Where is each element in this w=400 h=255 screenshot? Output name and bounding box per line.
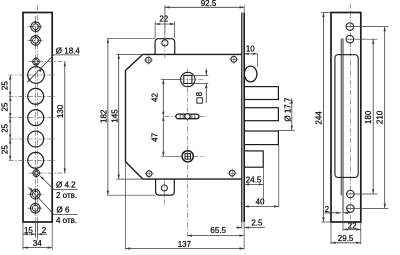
svg-text:2 отв.: 2 отв. <box>56 191 77 200</box>
svg-text:42: 42 <box>150 93 159 102</box>
svg-text:22: 22 <box>159 15 168 24</box>
svg-text:40: 40 <box>256 198 265 207</box>
svg-text:24.5: 24.5 <box>246 176 262 185</box>
svg-text:8: 8 <box>195 91 204 96</box>
svg-text:Ø 17.7: Ø 17.7 <box>283 97 292 122</box>
svg-text:22: 22 <box>348 222 357 231</box>
svg-text:25: 25 <box>1 145 10 154</box>
svg-text:10: 10 <box>246 44 255 53</box>
svg-text:34: 34 <box>33 239 42 248</box>
svg-text:137: 137 <box>178 240 192 249</box>
svg-text:Ø 4.2: Ø 4.2 <box>56 181 76 190</box>
svg-text:25: 25 <box>1 102 10 111</box>
svg-text:2.5: 2.5 <box>251 219 263 228</box>
svg-text:Ø 6: Ø 6 <box>57 206 70 215</box>
svg-text:130: 130 <box>56 104 65 118</box>
svg-text:145: 145 <box>111 109 120 123</box>
svg-text:210: 210 <box>376 110 385 124</box>
svg-text:92.5: 92.5 <box>201 0 217 8</box>
svg-text:180: 180 <box>364 110 373 124</box>
svg-text:2: 2 <box>42 226 47 235</box>
svg-text:2: 2 <box>325 205 330 214</box>
svg-text:65.5: 65.5 <box>210 226 226 235</box>
svg-text:25: 25 <box>1 81 10 90</box>
svg-text:244: 244 <box>314 111 323 125</box>
svg-text:15: 15 <box>24 226 33 235</box>
svg-text:25: 25 <box>1 123 10 132</box>
svg-text:29.5: 29.5 <box>338 234 354 243</box>
svg-text:4 отв.: 4 отв. <box>56 216 77 225</box>
svg-text:47: 47 <box>150 132 159 141</box>
svg-text:Ø 18.4: Ø 18.4 <box>56 46 81 55</box>
svg-text:182: 182 <box>99 109 108 123</box>
